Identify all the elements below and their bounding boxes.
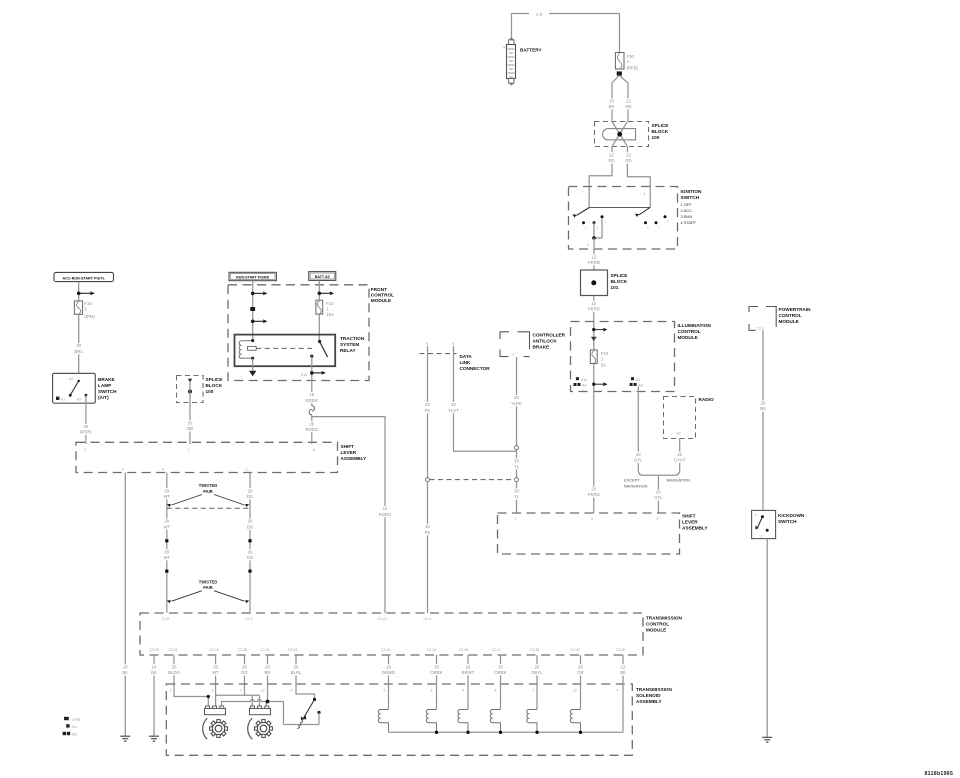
svg-text:SPLICE: SPLICE xyxy=(652,123,669,128)
svg-text:C2-17: C2-17 xyxy=(492,648,501,652)
svg-text:TRANSMISSION: TRANSMISSION xyxy=(636,687,673,692)
splice block 100 (left) xyxy=(177,376,223,403)
svg-text:ORBK: ORBK xyxy=(430,670,442,675)
svg-text:F10: F10 xyxy=(601,351,609,356)
svg-text:RELAY: RELAY xyxy=(340,348,356,353)
svg-text:SYSTEM: SYSTEM xyxy=(340,342,359,347)
pressure switch xyxy=(284,698,321,729)
svg-text:20: 20 xyxy=(84,424,89,429)
svg-text:20: 20 xyxy=(514,458,519,463)
tone wheel 1 xyxy=(210,720,228,738)
svg-text:1 OFF: 1 OFF xyxy=(681,202,693,207)
wire branch to TCM xyxy=(312,417,385,613)
transmission control module xyxy=(140,613,683,655)
svg-text:RD: RD xyxy=(608,158,614,163)
svg-text:4: 4 xyxy=(617,689,619,693)
svg-text:FRONT: FRONT xyxy=(371,287,387,292)
solenoid coil at x=388.5 xyxy=(378,710,388,733)
svg-text:20: 20 xyxy=(591,487,596,492)
svg-text:(RFB): (RFB) xyxy=(627,65,639,70)
svg-text:20: 20 xyxy=(535,664,540,669)
svg-text:NAVIGATION: NAVIGATION xyxy=(624,483,648,488)
wire pair fuse to splice block xyxy=(612,76,628,122)
wire relay coil to ground xyxy=(252,358,254,371)
svg-text:RADIO: RADIO xyxy=(699,397,714,402)
module pin markers xyxy=(576,377,579,380)
svg-text:C2-30: C2-30 xyxy=(616,648,625,652)
wire TCM to solenoid at x=468 xyxy=(467,655,469,710)
svg-text:C1-1: C1-1 xyxy=(246,617,253,621)
svg-text:3: 3 xyxy=(84,448,86,452)
svg-text:20: 20 xyxy=(514,395,519,400)
svg-text:5: 5 xyxy=(591,517,593,521)
svg-text:2: 2 xyxy=(761,534,763,538)
svg-text:6: 6 xyxy=(384,689,386,693)
svg-text:1: 1 xyxy=(246,467,248,471)
svg-text:PKRD: PKRD xyxy=(588,260,600,265)
wire shift lever pin4 ground xyxy=(124,473,126,737)
data link connector xyxy=(420,342,491,371)
svg-text:TWISTED: TWISTED xyxy=(199,483,217,488)
svg-text:MODULE: MODULE xyxy=(678,335,698,340)
speed sensor 1 xyxy=(205,708,226,714)
wire TCM to solenoid at x=580.5 xyxy=(580,655,582,710)
svg-text:BLOCK: BLOCK xyxy=(206,383,223,388)
svg-text:12: 12 xyxy=(591,301,596,306)
svg-text:SPLICE: SPLICE xyxy=(611,273,628,278)
svg-text:20: 20 xyxy=(213,664,218,669)
svg-text:SHIFT: SHIFT xyxy=(682,514,696,519)
svg-text:SPLICE: SPLICE xyxy=(206,377,223,382)
wire splice 100 to shift lever xyxy=(189,383,191,444)
fuse F10 (module internal) xyxy=(590,350,597,364)
svg-text:GYVT: GYVT xyxy=(674,458,686,463)
svg-text:18: 18 xyxy=(123,664,128,669)
svg-text:DATA: DATA xyxy=(460,354,473,359)
svg-text:8: 8 xyxy=(313,448,315,452)
connector square below fuse xyxy=(617,71,622,75)
svg-text:C2-16: C2-16 xyxy=(427,648,436,652)
connector squares twisted pair xyxy=(165,539,168,542)
svg-text:18: 18 xyxy=(466,664,471,669)
solenoid coil at x=436.5 xyxy=(426,710,436,733)
svg-text:A1: A1 xyxy=(636,378,640,382)
svg-text:5: 5 xyxy=(452,342,454,346)
svg-text:SWITCH: SWITCH xyxy=(98,389,117,394)
svg-text:A7: A7 xyxy=(677,432,681,436)
shift lever assembly (right) xyxy=(498,513,709,554)
svg-text:101: 101 xyxy=(611,285,619,290)
svg-text:4: 4 xyxy=(644,192,646,196)
svg-text:2: 2 xyxy=(533,689,535,693)
svg-text:4 START: 4 START xyxy=(681,220,697,225)
svg-text:TWISTED: TWISTED xyxy=(199,579,217,584)
svg-text:20: 20 xyxy=(498,664,503,669)
wire module internal feed xyxy=(593,322,595,514)
svg-text:BR: BR xyxy=(265,670,271,675)
svg-text:BK: BK xyxy=(609,104,615,109)
solenoid coil at x=580.5 xyxy=(570,710,580,733)
svg-text:A3: A3 xyxy=(639,384,643,388)
wire TCM C2-28 sensor 2 signal xyxy=(244,655,246,695)
svg-text:PKRD: PKRD xyxy=(588,492,600,497)
svg-text:POWERTRAIN: POWERTRAIN xyxy=(779,307,812,312)
svg-text:F10: F10 xyxy=(84,301,92,306)
wire twisted pair right xyxy=(249,473,251,613)
svg-text:20: 20 xyxy=(164,519,169,524)
svg-text:3: 3 xyxy=(431,689,433,693)
svg-text:WT: WT xyxy=(212,670,219,675)
svg-text:100: 100 xyxy=(206,389,214,394)
svg-text:ASSEMBLY: ASSEMBLY xyxy=(636,699,662,704)
svg-text:24L: 24L xyxy=(72,725,78,729)
svg-text:12: 12 xyxy=(261,689,265,693)
svg-text:BATT A0: BATT A0 xyxy=(315,275,330,279)
svg-text:ASSEMBLY: ASSEMBLY xyxy=(682,526,708,531)
svg-text:RUN-START PG/RD: RUN-START PG/RD xyxy=(236,275,269,279)
svg-text:DG: DG xyxy=(247,555,254,560)
svg-text:A10: A10 xyxy=(581,378,587,382)
svg-text:C1-01: C1-01 xyxy=(261,648,270,652)
svg-text:C1-13: C1-13 xyxy=(378,617,387,621)
svg-text:RDDG: RDDG xyxy=(305,427,318,432)
svg-text:RD: RD xyxy=(625,158,631,163)
svg-text:CONTROLLER: CONTROLLER xyxy=(533,333,566,338)
wire sensor return bus xyxy=(222,700,284,725)
svg-text:A4: A4 xyxy=(582,384,586,388)
wire TCM C2-11 sensor supply xyxy=(174,655,208,706)
svg-text:LAMP: LAMP xyxy=(98,383,111,388)
svg-text:27RS: 27RS xyxy=(72,718,81,722)
svg-text:9: 9 xyxy=(657,517,659,521)
svg-text:(A/T): (A/T) xyxy=(98,395,109,400)
wire pair splice to ignition switch xyxy=(589,147,650,208)
svg-text:20: 20 xyxy=(677,452,682,457)
svg-text:DB: DB xyxy=(187,426,193,431)
wire splice 101 to illumination module xyxy=(593,296,595,322)
svg-text:20: 20 xyxy=(294,664,299,669)
svg-text:20: 20 xyxy=(514,489,519,494)
svg-text:ILLUMINATION: ILLUMINATION xyxy=(678,323,712,328)
svg-text:18: 18 xyxy=(386,664,391,669)
svg-text:9: 9 xyxy=(426,342,428,346)
wire TCM to solenoid at x=436.5 xyxy=(436,655,438,710)
ignition switch xyxy=(569,187,702,271)
svg-text:BATTERY: BATTERY xyxy=(520,47,542,52)
svg-text:2: 2 xyxy=(188,448,190,452)
svg-text:12: 12 xyxy=(609,153,614,158)
wire radio illumination xyxy=(679,439,681,471)
svg-text:CONTROL: CONTROL xyxy=(779,313,802,318)
svg-text:C2-28: C2-28 xyxy=(238,648,247,652)
svg-text:BLDG: BLDG xyxy=(168,670,180,675)
svg-text:A3: A3 xyxy=(77,397,81,401)
svg-text:2 ACC: 2 ACC xyxy=(681,208,692,213)
ground (kickdown) xyxy=(762,737,772,742)
fuse F10 (TIPM internal) xyxy=(316,300,323,314)
ground (TCM) xyxy=(149,736,159,741)
svg-text:C2-45: C2-45 xyxy=(459,648,468,652)
svg-text:5: 5 xyxy=(162,467,164,471)
svg-text:20: 20 xyxy=(656,490,661,495)
svg-text:A2: A2 xyxy=(69,377,73,381)
svg-text:RD: RD xyxy=(625,104,631,109)
svg-text:15A: 15A xyxy=(326,312,334,317)
speed sensor 2 xyxy=(250,708,271,714)
svg-text:YLVT: YLVT xyxy=(448,408,459,413)
splice block 100 xyxy=(595,122,669,147)
svg-text:ACC-RUN-START PG/TL: ACC-RUN-START PG/TL xyxy=(63,276,106,280)
wire feed to brake lamp switch xyxy=(78,282,80,380)
wire TCM C2-04 pressure switch xyxy=(296,655,315,700)
splice block 101 xyxy=(581,270,628,296)
svg-text:CONTROL: CONTROL xyxy=(646,622,669,627)
svg-text:LEVER: LEVER xyxy=(682,520,698,525)
svg-text:20: 20 xyxy=(636,452,641,457)
wire PCM to kickdown switch xyxy=(762,330,764,510)
wire TCM to solenoid at x=388.5 xyxy=(388,655,390,710)
wire run-start to relay coil xyxy=(252,281,254,341)
svg-text:LEVER: LEVER xyxy=(341,450,357,455)
svg-text:28L: 28L xyxy=(72,733,78,737)
svg-text:GYL: GYL xyxy=(654,495,663,500)
svg-text:ORBK: ORBK xyxy=(494,670,506,675)
svg-text:DG: DG xyxy=(241,670,248,675)
svg-text:CONNECTOR: CONNECTOR xyxy=(460,366,491,371)
wire kickdown to ground xyxy=(766,539,768,738)
svg-text:C1-4: C1-4 xyxy=(424,617,431,621)
svg-text:C2-04: C2-04 xyxy=(288,648,297,652)
svg-text:RDDG: RDDG xyxy=(305,398,318,403)
wire DLC pin9 to TCM xyxy=(427,354,429,613)
svg-text:C1-9: C1-9 xyxy=(162,617,169,621)
svg-text:ASSEMBLY: ASSEMBLY xyxy=(341,456,367,461)
svg-text:DBWD: DBWD xyxy=(382,670,395,675)
svg-text:4: 4 xyxy=(122,467,124,471)
svg-text:BRAKE: BRAKE xyxy=(98,377,115,382)
svg-text:MODULE: MODULE xyxy=(779,319,799,324)
svg-text:BLOCK: BLOCK xyxy=(652,129,669,134)
svg-text:F10: F10 xyxy=(326,301,334,306)
svg-text:PK: PK xyxy=(425,408,431,413)
feed box BATT xyxy=(309,272,336,281)
svg-text:16: 16 xyxy=(383,506,388,511)
svg-text:20: 20 xyxy=(265,664,270,669)
svg-text:20: 20 xyxy=(188,420,193,425)
wire batt to relay contact xyxy=(318,280,320,341)
svg-text:BRAKE: BRAKE xyxy=(533,345,550,350)
fuse F10 (TIPM) xyxy=(74,301,82,314)
svg-text:WTPK: WTPK xyxy=(80,430,93,435)
svg-text:WT: WT xyxy=(163,555,170,560)
svg-text:7: 7 xyxy=(240,689,242,693)
svg-text:C2-11: C2-11 xyxy=(169,648,178,652)
svg-text:YLPK: YLPK xyxy=(511,401,522,406)
svg-text:GYL: GYL xyxy=(634,458,643,463)
svg-text:12: 12 xyxy=(626,99,631,104)
svg-text:10: 10 xyxy=(609,99,614,104)
svg-text:C2-47: C2-47 xyxy=(571,648,580,652)
svg-text:20: 20 xyxy=(425,402,430,407)
svg-text:20: 20 xyxy=(76,343,81,348)
svg-text:20: 20 xyxy=(578,664,583,669)
svg-text:20: 20 xyxy=(248,519,253,524)
legend xyxy=(63,717,81,737)
front control module (TIPM) xyxy=(228,285,394,381)
svg-text:20: 20 xyxy=(309,421,314,426)
svg-text:20: 20 xyxy=(172,664,177,669)
svg-text:WT: WT xyxy=(163,524,170,529)
svg-text:BK: BK xyxy=(620,670,626,675)
svg-text:9: 9 xyxy=(462,689,464,693)
svg-text:4: 4 xyxy=(291,689,293,693)
svg-text:3: 3 xyxy=(212,689,214,693)
wire TCM C1-01 sensor return xyxy=(267,655,269,702)
ground (shift lever) xyxy=(120,736,130,741)
svg-text:RDDG: RDDG xyxy=(379,512,392,517)
fuse F30 (battery feed) xyxy=(615,53,638,71)
svg-text:12: 12 xyxy=(592,255,597,260)
svg-text:MODULE: MODULE xyxy=(371,298,391,303)
svg-text:20: 20 xyxy=(164,549,169,554)
svg-text:20: 20 xyxy=(164,488,169,493)
svg-text:NAVIGATION: NAVIGATION xyxy=(667,478,691,483)
svg-text:S10: S10 xyxy=(301,373,307,377)
svg-text:20: 20 xyxy=(451,402,456,407)
wire solenoid return bus xyxy=(389,731,624,733)
svg-text:20: 20 xyxy=(761,401,766,406)
svg-text:CONTROL: CONTROL xyxy=(371,293,394,298)
svg-text:OR: OR xyxy=(577,670,583,675)
wire brake switch to shift lever xyxy=(85,395,87,444)
wire twisted pair left xyxy=(166,473,168,613)
svg-text:C2-10: C2-10 xyxy=(210,648,219,652)
svg-text:BK: BK xyxy=(760,406,766,411)
transmission solenoid assembly xyxy=(166,684,672,755)
svg-text:SWITCH: SWITCH xyxy=(778,519,797,524)
svg-text:8: 8 xyxy=(495,689,497,693)
wire module illumination out xyxy=(637,387,639,471)
svg-text:16: 16 xyxy=(309,392,314,397)
svg-text:ANTILOCK: ANTILOCK xyxy=(533,339,558,344)
svg-text:7: 7 xyxy=(581,191,583,195)
svg-text:+: + xyxy=(503,46,505,50)
svg-text:BRWT: BRWT xyxy=(462,670,475,675)
svg-text:IGNITION: IGNITION xyxy=(681,189,702,194)
battery xyxy=(503,38,542,85)
svg-text:DBYL: DBYL xyxy=(531,670,543,675)
svg-text:LINK: LINK xyxy=(460,360,472,365)
svg-text:3 RUN: 3 RUN xyxy=(681,214,693,219)
svg-text:12: 12 xyxy=(621,664,626,669)
svg-text:1: 1 xyxy=(755,513,757,517)
svg-text:20: 20 xyxy=(425,524,430,529)
svg-text:WT: WT xyxy=(163,494,170,499)
radio xyxy=(664,397,714,439)
svg-text:SWITCH: SWITCH xyxy=(681,195,700,200)
svg-text:C2-15: C2-15 xyxy=(150,648,159,652)
svg-text:YL: YL xyxy=(514,494,520,499)
svg-text:BLOCK: BLOCK xyxy=(611,279,628,284)
wire CAB to shift lever xyxy=(516,357,518,513)
wire relay output xyxy=(311,356,313,406)
svg-text:MODULE: MODULE xyxy=(646,628,666,633)
feed box RUN-START xyxy=(229,272,276,280)
svg-text:C1 3: C1 3 xyxy=(757,326,764,330)
svg-text:CONTROL: CONTROL xyxy=(678,329,701,334)
svg-text:PAIR: PAIR xyxy=(203,585,213,590)
svg-text:10: 10 xyxy=(573,689,577,693)
solenoid coil at x=468 xyxy=(458,710,468,733)
wire TCM C2-30 solenoid return xyxy=(622,655,624,732)
svg-text:100: 100 xyxy=(652,135,660,140)
svg-text:5A: 5A xyxy=(601,363,606,368)
wire dashed option link xyxy=(430,479,515,481)
svg-text:14: 14 xyxy=(152,664,157,669)
svg-text:A 0: A 0 xyxy=(536,12,543,17)
svg-text:BK: BK xyxy=(122,670,128,675)
svg-text:YL: YL xyxy=(514,464,520,469)
solenoid coil at x=537 xyxy=(527,710,537,733)
feed box ACC-RUN-START xyxy=(54,272,114,281)
svg-text:1: 1 xyxy=(170,689,172,693)
svg-text:20: 20 xyxy=(248,488,253,493)
svg-text:C2-28: C2-28 xyxy=(530,648,539,652)
node illumination merge xyxy=(638,470,679,475)
in-line connector xyxy=(309,406,314,415)
shift lever assembly (interlock) xyxy=(76,442,367,472)
svg-text:TRACTION: TRACTION xyxy=(340,336,365,341)
controller antilock brake xyxy=(500,332,566,357)
svg-text:A1: A1 xyxy=(61,397,65,401)
tone wheel 2 xyxy=(255,720,273,738)
brake lamp switch xyxy=(53,373,118,403)
svg-text:BLRL: BLRL xyxy=(291,670,302,675)
svg-text:C2-44: C2-44 xyxy=(381,648,390,652)
svg-text:KICKDOWN: KICKDOWN xyxy=(778,513,805,518)
svg-text:BRL: BRL xyxy=(75,349,84,354)
wire TCM to solenoid at x=537 xyxy=(536,655,538,710)
svg-text:8118b1965: 8118b1965 xyxy=(925,771,954,777)
svg-text:1: 1 xyxy=(515,517,517,521)
illuminated module xyxy=(571,322,712,392)
svg-text:SOLENOID: SOLENOID xyxy=(636,693,661,698)
svg-text:PAIR: PAIR xyxy=(203,489,213,494)
kickdown switch xyxy=(752,510,805,538)
svg-text:A: A xyxy=(627,59,630,64)
svg-text:PKRD: PKRD xyxy=(588,306,600,311)
wire TCM ground xyxy=(153,655,155,736)
svg-text:12: 12 xyxy=(626,153,631,158)
powertrain control module xyxy=(749,307,811,331)
svg-text:PK: PK xyxy=(425,530,431,535)
svg-text:2: 2 xyxy=(513,353,515,357)
svg-text:DG: DG xyxy=(247,494,254,499)
svg-text:TRANSMISSION: TRANSMISSION xyxy=(646,616,683,621)
svg-text:18: 18 xyxy=(434,664,439,669)
svg-text:(IPM): (IPM) xyxy=(84,314,95,319)
wire TCM to solenoid at x=500.5 xyxy=(500,655,502,710)
svg-text:F30: F30 xyxy=(627,54,635,59)
wire TCM C2-10 sensor 1 signal xyxy=(215,655,217,706)
svg-text:DG: DG xyxy=(247,524,254,529)
svg-text:SHIFT: SHIFT xyxy=(341,444,355,449)
wire DLC pin5 xyxy=(454,354,517,452)
wire sensor common xyxy=(216,695,260,706)
svg-text:EXCEPT: EXCEPT xyxy=(624,478,640,483)
wire battery B+ feed xyxy=(512,14,620,53)
relay (transmission control) xyxy=(235,335,365,367)
